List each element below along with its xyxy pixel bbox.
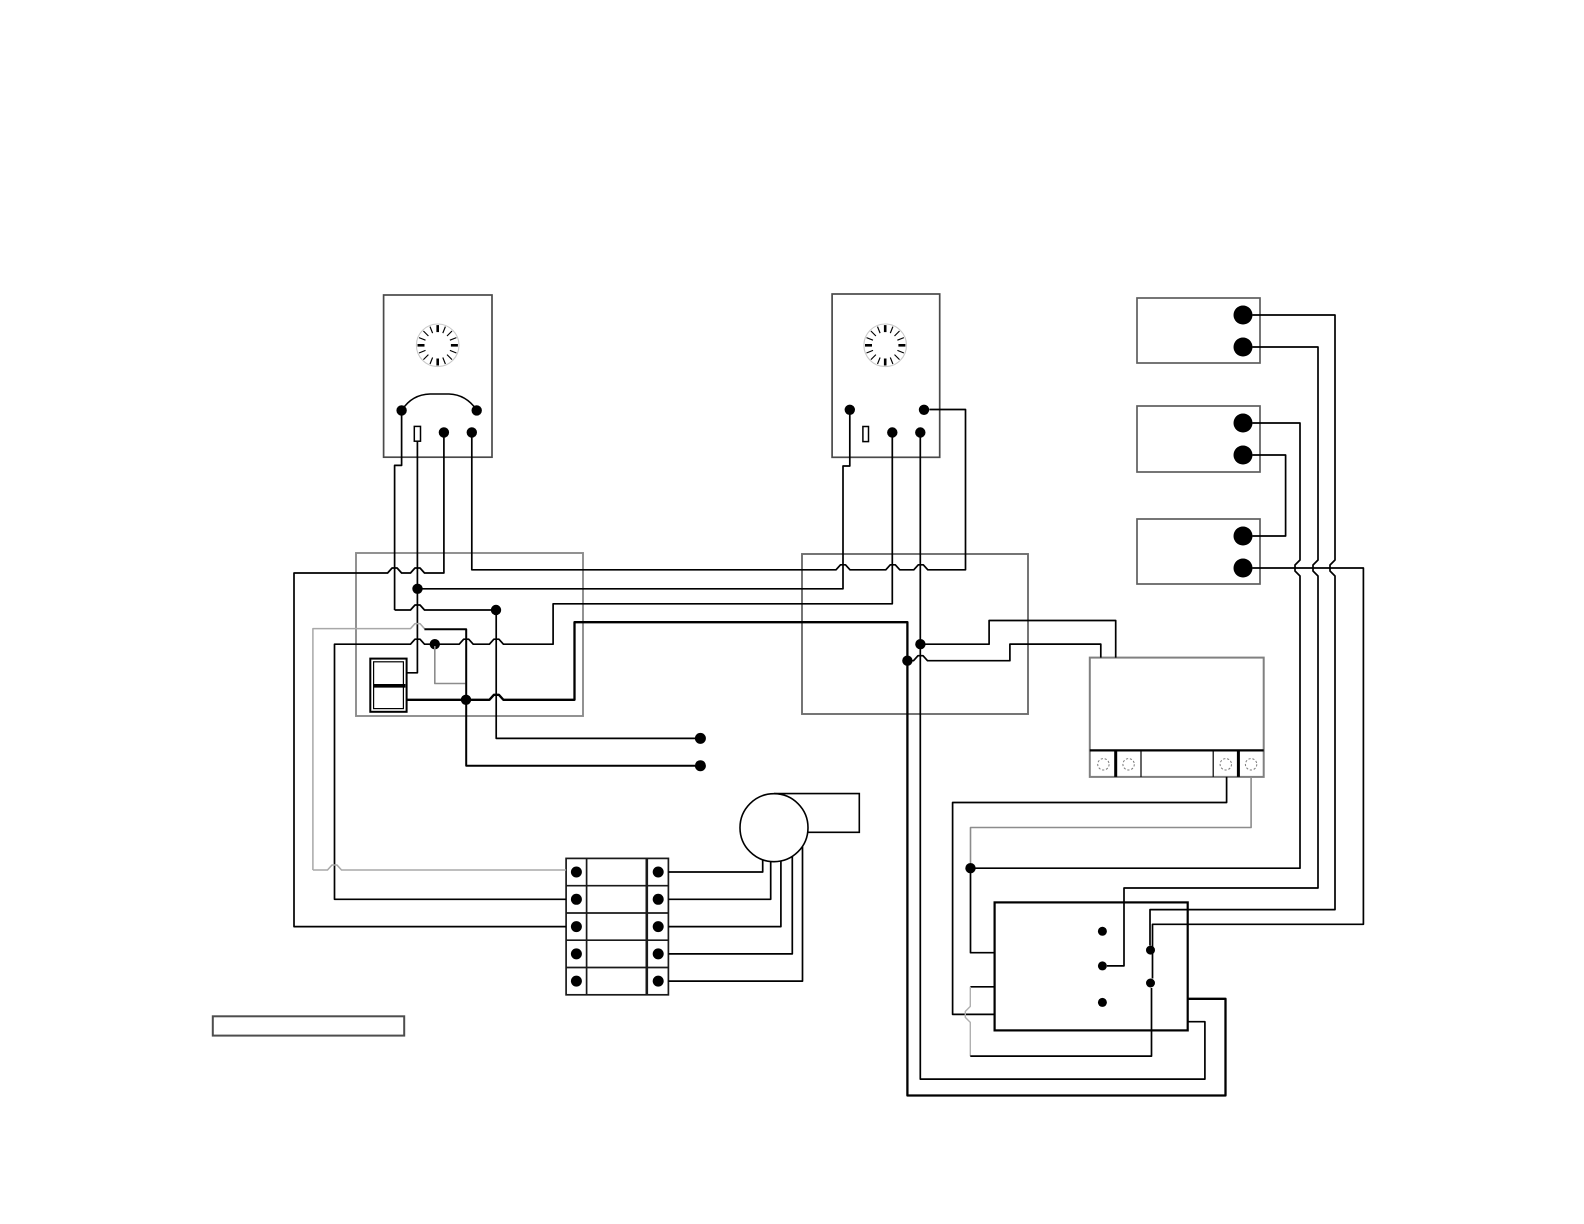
thermostat T2 terminal RC [919,405,929,415]
thermostat T1 body [384,295,492,457]
wire zone valve M3-2 to furnace dot [1153,568,1364,979]
wire zone valve M2-2 to M3-1 [1253,455,1286,536]
wire limit branch down [424,629,695,766]
gray stub from node J2 [435,646,466,684]
control board divider 2 [1140,750,1142,777]
thermostat T2 terminal R [845,405,855,415]
thermostat T1 terminal R [396,405,406,415]
zone panel 2 enclosure [802,554,1028,714]
node J1 [412,584,422,594]
connection dot A [695,733,706,744]
terminal strip TB1 body [566,858,668,994]
zone valve M3 body [1137,519,1260,584]
label placeholder box [213,1016,404,1035]
control board screw terminal 3 [1220,759,1231,770]
wire node J1 to T2-R [418,414,850,589]
zone panel 1 enclosure [356,553,583,716]
gray vertical with hop [965,987,970,1056]
terminal strip row divider 1 [566,885,668,887]
wire T1-R down-jog [395,413,402,610]
terminal strip screw R4 [653,948,664,959]
terminal strip screw R2 [653,894,664,905]
wire T2-Y long run [920,437,1205,1079]
wire control board terminal 3 to furnace [953,777,1227,1015]
terminal strip row divider 3 [566,939,668,941]
zone valve M3 terminal 1 [1234,527,1253,546]
wire TB R1 to blower [668,860,762,872]
node J3 [461,695,471,705]
wire transformer secondary run [407,622,1226,1095]
thermostat T2 dial [864,324,907,367]
wire T2-W to zone panel 1 [435,437,893,644]
gray wire elbow upper [313,624,425,870]
wire node J7 to zone valve M2 [971,423,1301,868]
control board divider 3 [1212,750,1214,777]
node J2 [430,639,440,649]
wire node J5 to control board [907,644,1100,661]
zone valve M1 terminal 2 [1234,338,1253,357]
thermostat T1 terminal Y [467,427,477,437]
terminal strip row divider 2 [566,912,668,914]
terminal strip screw L4 [571,948,582,959]
terminal strip right column line [645,858,648,994]
wire node J4 to stub dot A [496,615,695,738]
wire T1-W left run [294,437,566,927]
connection dot B [695,760,706,771]
thermostat T2 heat anticipator [863,427,869,442]
wire furnace loop stub [970,986,994,988]
furnace dot 2 [1146,946,1155,955]
furnace dot 3 [1098,961,1107,970]
thermostat T2 terminal W [887,427,897,437]
control board screw terminal 2 [1123,759,1134,770]
furnace box body [995,902,1188,1030]
wire T1-R to node J4 [395,605,493,610]
zone valve M1 body [1137,298,1260,363]
wire node J6 to control board [920,621,1115,658]
control board divider 1 [1114,750,1117,777]
control board screw terminal 4 [1245,759,1256,770]
terminal strip row divider 4 [566,967,668,969]
furnace dot 1 [1098,927,1107,936]
node J7 [965,863,975,873]
zone valve M2 terminal 2 [1234,446,1253,465]
zone valve M2 terminal 1 [1234,414,1253,433]
wire node J7 into furnace [971,868,995,953]
node J5 [902,656,912,666]
wire T1-Y to T2-RC [472,410,966,570]
terminal strip screw R3 [653,921,664,932]
thermostat T1 heat anticipator [414,426,420,441]
wire zone valve M1-2 to furnace dot [1107,347,1318,966]
wire TB R2 to blower [668,862,770,900]
control board U1 enclosure [1090,658,1264,777]
node J4 [491,605,501,615]
terminal strip screw L2 [571,894,582,905]
control board terminal strip line [1090,749,1264,751]
terminal strip left column line [586,858,588,994]
terminal strip screw L3 [571,921,582,932]
gray wire control board terminal 4 [971,777,1252,863]
terminal strip screw R5 [653,976,664,987]
thermostat T1 dial [416,324,459,367]
control board screw terminal 1 [1098,759,1109,770]
zone valve M2 body [1137,406,1260,472]
thermostat T1 terminal W [439,427,449,437]
gray wire to TB row1 [313,865,566,870]
terminal strip screw L5 [571,976,582,987]
blower outlet duct [774,794,859,833]
wire TB R5 to blower [668,847,802,981]
thermostat T1 jumper arc [402,394,477,410]
zone valve M1 terminal 1 [1234,306,1253,325]
wire TB R4 to blower [668,857,792,954]
control board divider 4 [1237,750,1240,777]
terminal strip screw R1 [653,867,664,878]
wire furnace bottom loop [970,988,1151,1056]
furnace dot 4 [1146,979,1155,988]
thermostat T2 terminal Y [915,427,925,437]
furnace dot 5 [1098,998,1107,1007]
transformer TR1 winding divider [374,684,406,688]
wire node J2 to TB row2 [335,639,567,899]
transformer TR1 outer [370,659,406,712]
thermostat T1 terminal RC [472,405,482,415]
zone valve M3 terminal 2 [1234,559,1253,578]
wire TB R3 to blower [668,861,781,926]
blower fan housing [740,794,808,862]
terminal strip screw L1 [571,867,582,878]
node J6 [915,639,925,649]
wire T1 anticipator to transformer [407,441,418,673]
transformer TR1 inner [374,662,404,709]
wire zone valve M1-1 to furnace dot [1150,315,1335,946]
thermostat T2 body [832,294,940,457]
